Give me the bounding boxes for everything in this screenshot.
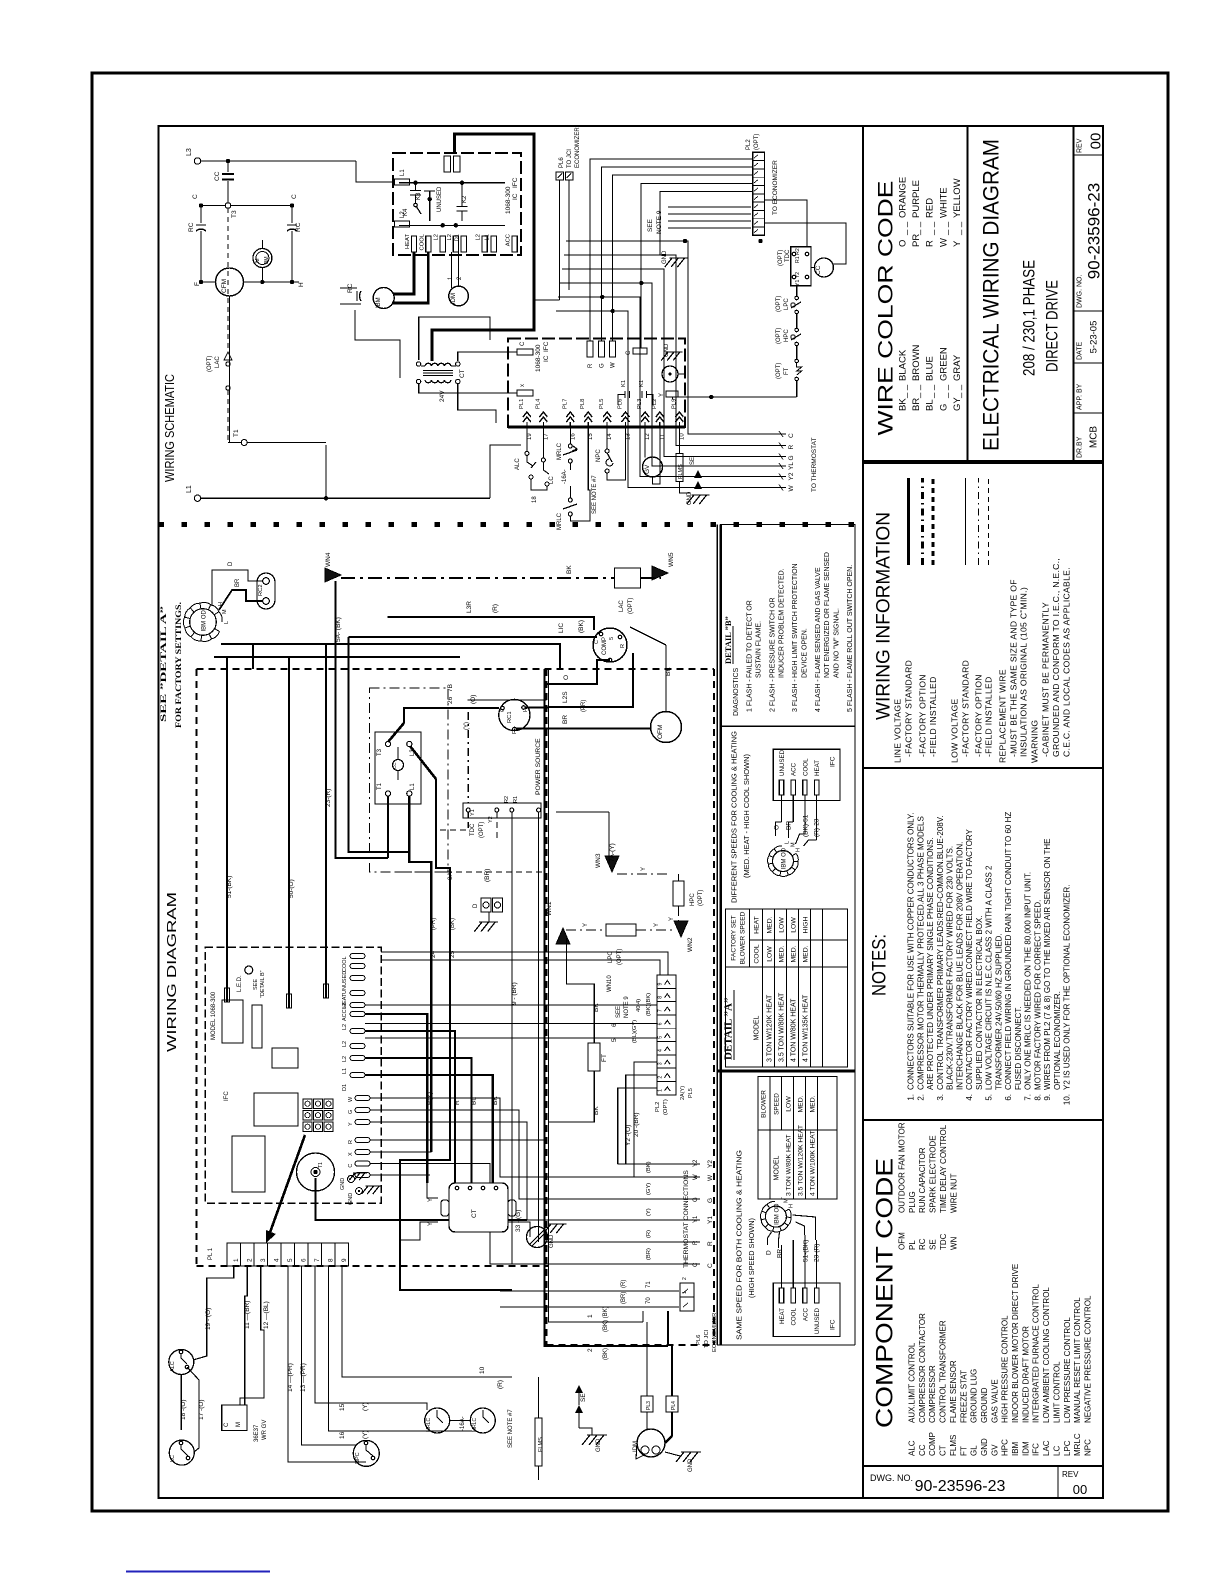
wire (229, 296, 231, 443)
svg-text:GRAY: GRAY (952, 354, 963, 381)
svg-text:CC: CC (214, 171, 221, 181)
svg-text:(OPT): (OPT) (776, 363, 782, 379)
svg-text:19 - (O): 19 - (O) (205, 1308, 212, 1330)
svg-text:10: 10 (679, 433, 685, 440)
wire rows 70 71 (500, 1290, 679, 1292)
svg-text:Y1: Y1 (707, 1216, 714, 1224)
ground (687, 495, 710, 504)
svg-text:3: 3 (658, 1062, 664, 1065)
svg-text:50-(O): 50-(O) (288, 879, 295, 898)
svg-text:40 4): 40 4) (636, 999, 642, 1012)
svg-text:(BK): (BK) (578, 620, 585, 633)
svg-text:Y2 IS USED ONLY FOR THE OPTION: Y2 IS USED ONLY FOR THE OPTIONAL ECONOMI… (1063, 884, 1072, 1090)
svg-text:TIME DELAY CONTROL: TIME DELAY CONTROL (939, 1124, 948, 1213)
svg-text:Y: Y (583, 923, 589, 927)
svg-text:H: H (789, 1204, 795, 1208)
svg-text:GL: GL (970, 1445, 979, 1456)
svg-text:Y: Y (654, 923, 660, 927)
svg-text:ALC: ALC (515, 458, 521, 470)
svg-text:SEE NOTE #7: SEE NOTE #7 (508, 1409, 514, 1448)
svg-text:W: W (707, 1174, 714, 1181)
svg-text:7.: 7. (1024, 1094, 1033, 1101)
svg-text:1068-300: 1068-300 (505, 186, 512, 214)
svg-text:8.: 8. (1033, 1094, 1042, 1101)
svg-text:K1: K1 (621, 380, 627, 387)
svg-text:PL5: PL5 (688, 1088, 694, 1098)
svg-text:(BL)(GY): (BL)(GY) (632, 1020, 638, 1043)
svg-text:1: 1 (587, 1314, 594, 1318)
thermostat connection G (370, 1110, 700, 1199)
svg-text:C: C (520, 341, 526, 346)
svg-text:R2: R2 (504, 796, 510, 803)
svg-text:L: L (785, 841, 791, 844)
svg-text:R: R (693, 1240, 699, 1245)
svg-text:COOL: COOL (342, 956, 348, 972)
svg-text:5: 5 (609, 637, 615, 640)
svg-text:INTERGRATED FURNACE CONTROL: INTERGRATED FURNACE CONTROL (1032, 1283, 1041, 1423)
svg-text:HPC: HPC (1001, 1439, 1010, 1456)
svg-text:7: 7 (314, 1258, 321, 1262)
wire dash-dot Y to HPC (617, 873, 671, 875)
svg-text:RC: RC (188, 222, 195, 232)
wire 18-(O) (180, 1375, 182, 1431)
svg-text:D: D (766, 1250, 773, 1255)
svg-text:90-23596-23: 90-23596-23 (915, 1478, 1006, 1495)
svg-text:WARNING: WARNING (1030, 720, 1040, 763)
svg-text:M: M (236, 1422, 242, 1427)
economizer plug PL5 strip (657, 975, 676, 1095)
gas valve control box 36E37 (222, 1405, 247, 1431)
svg-text:ONLY ONE MRLC IS NEEDED ON THE: ONLY ONE MRLC IS NEEDED ON THE 80,000 IN… (1024, 872, 1033, 1090)
high pressure control HPC (schematic) (795, 328, 799, 332)
svg-text:K4: K4 (403, 208, 409, 216)
wire 17-(O) (187, 1367, 199, 1438)
wire 9-(BR) (511, 812, 513, 1264)
svg-text:BK: BK (492, 1096, 499, 1105)
svg-text:4: 4 (274, 1258, 281, 1262)
indoor blower motor IBM (schematic) (373, 288, 394, 309)
wire vertical pair economizer column (549, 669, 644, 1322)
blower motor BM (253, 249, 272, 268)
led indicator (245, 966, 253, 974)
svg-text:2: 2 (658, 1076, 664, 1079)
svg-text:L1: L1 (485, 234, 491, 240)
svg-text:INDOOR BLOWER MOTOR DIRECT DRI: INDOOR BLOWER MOTOR DIRECT DRIVE (1011, 1264, 1020, 1423)
svg-text:REV: REV (1062, 1470, 1079, 1479)
svg-text:SEE: SEE (253, 979, 259, 990)
svg-text:(OPT): (OPT) (207, 356, 213, 372)
wire 14-(PR) (288, 1266, 366, 1462)
svg-text:_ _: _ _ (938, 221, 949, 236)
wire 24-(PR) (409, 796, 431, 1152)
svg-text:IC: IC (512, 193, 519, 200)
plug pin (566, 412, 574, 422)
svg-text:WN10: WN10 (607, 975, 613, 992)
svg-text:IC: IC (543, 355, 550, 362)
node T3 (225, 203, 231, 209)
svg-text:IDM: IDM (1021, 1441, 1030, 1456)
svg-text:HIGH: HIGH (803, 916, 810, 933)
svg-text:ACC: ACC (506, 234, 512, 246)
IFC control box bottom (1068-300) (508, 339, 685, 428)
svg-text:MODEL 1068-300: MODEL 1068-300 (211, 991, 217, 1040)
svg-text:G: G (938, 404, 949, 411)
economizer plug PL6 (schematic) (556, 172, 564, 180)
svg-text:1.: 1. (907, 1094, 916, 1101)
compressor COMP circle (593, 628, 627, 662)
svg-text:M: M (255, 258, 261, 263)
wire (559, 180, 561, 300)
svg-text:WIRE COLOR CODE: WIRE COLOR CODE (875, 181, 898, 436)
svg-text:INSULATION AS ORIGINAL (105 C˚: INSULATION AS ORIGINAL (105 C˚MIN.) (1019, 587, 1029, 757)
svg-text:(Y): (Y) (362, 1402, 369, 1411)
svg-text:MED.: MED. (810, 1095, 817, 1112)
svg-text:W: W (348, 1096, 354, 1102)
svg-text:PL2: PL2 (746, 139, 752, 150)
same speed table (758, 1077, 837, 1200)
time delay control TDC strip (463, 803, 541, 818)
svg-text:MED.: MED. (767, 916, 774, 933)
power source dash-dot box (370, 688, 449, 872)
wire 26 (404, 708, 499, 723)
pin Y (666, 391, 678, 397)
svg-text:9A: 9A (447, 871, 454, 880)
detail column border lines (716, 525, 718, 1346)
wire thick from box top (432, 134, 534, 361)
svg-text:FAILED TO DETECT OR: FAILED TO DETECT OR (747, 600, 754, 678)
svg-text:YELLOW: YELLOW (952, 178, 963, 218)
svg-text:FLAME SENSOR: FLAME SENSOR (949, 1360, 958, 1423)
pin C left (517, 349, 533, 355)
svg-text:9 - (BR): 9 - (BR) (511, 982, 518, 1005)
svg-text:5.: 5. (985, 1094, 994, 1101)
svg-text:K3: K3 (416, 192, 422, 200)
svg-text:DWG. NO.: DWG. NO. (870, 1473, 913, 1483)
manual reset limit MRLC upper (569, 427, 571, 444)
tap wires lower (768, 1232, 772, 1245)
wire stub C2 (370, 1174, 430, 1176)
high pressure control HPC (diagram) (673, 881, 684, 906)
svg-text:RC2: RC2 (258, 584, 264, 596)
svg-text:BLOWER SPEED: BLOWER SPEED (740, 911, 747, 964)
svg-text:4: 4 (658, 1049, 664, 1052)
svg-text:WN3: WN3 (595, 853, 602, 868)
time delay control TDC (schematic) (791, 247, 811, 286)
svg-text:-16A-: -16A- (562, 469, 568, 484)
svg-text:BR: BR (777, 1249, 784, 1258)
svg-text:L1: L1 (410, 783, 416, 790)
plug pin (641, 412, 649, 422)
svg-text:HEAT: HEAT (779, 1308, 786, 1324)
control transformer CT (schematic) (425, 363, 432, 366)
pin D1 (461, 236, 466, 252)
wire chain LPC HPC FT (796, 286, 798, 296)
low pressure control LPC (schematic) (795, 296, 799, 300)
svg-text:L: L (224, 621, 230, 624)
svg-text:NPC: NPC (1083, 1439, 1092, 1456)
wire L2S (549, 706, 583, 708)
svg-text:ACC: ACC (802, 1307, 809, 1321)
svg-text:3 TON W/80K HEAT: 3 TON W/80K HEAT (786, 1134, 793, 1196)
svg-text:15: 15 (588, 433, 594, 440)
svg-text:19: 19 (527, 433, 533, 440)
wire from PL5 strip to board (381, 960, 660, 975)
board pin D1 (350, 1073, 365, 1078)
cabinet dashed outline (197, 668, 715, 670)
svg-text:R: R (588, 363, 594, 368)
svg-text:ECONOMIZER: ECONOMIZER (712, 1313, 718, 1352)
svg-text:C.E.C. AND LOCAL CODES AS APPL: C.E.C. AND LOCAL CODES AS APPLICABLE. (1062, 567, 1072, 757)
svg-text:WIRING DIAGRAM: WIRING DIAGRAM (165, 892, 179, 1052)
svg-text:CONTROL TRANSFORMER PRIMARY LE: CONTROL TRANSFORMER PRIMARY LEADS:RED-CO… (936, 815, 945, 1090)
wire to thermostat R (564, 255, 786, 446)
svg-text:H: H (298, 282, 305, 287)
svg-text:WN: WN (949, 1236, 958, 1250)
svg-text:PL5: PL5 (599, 399, 605, 409)
low ambient cooling LAC (615, 568, 641, 588)
wire B(Y) (365, 1014, 427, 1183)
svg-text:MCB: MCB (1089, 426, 1100, 449)
wire 9A dashed (396, 871, 545, 873)
wire BK to freeze stat (567, 938, 595, 1043)
blue underline mark bottom left (126, 1571, 270, 1573)
svg-text:HIGH PRESSURE CONTROL: HIGH PRESSURE CONTROL (1001, 1315, 1010, 1423)
svg-text:PL4: PL4 (671, 1401, 677, 1410)
svg-text:36E37: 36E37 (254, 1424, 260, 1442)
svg-text:NOTES:: NOTES: (870, 934, 891, 996)
svg-text:PL6: PL6 (696, 1335, 702, 1345)
wire from motor to left runs (221, 644, 560, 669)
thermostat connection R (370, 1140, 700, 1242)
svg-text:3 TON W/120K HEAT: 3 TON W/120K HEAT (767, 994, 774, 1062)
svg-text:GROUNDED AND CONFORM TO I.E.C.: GROUNDED AND CONFORM TO I.E.C., N.E.C., (1051, 558, 1061, 757)
svg-text:_ _: _ _ (911, 221, 922, 236)
svg-text:W: W (938, 238, 949, 247)
svg-text:_ _: _ _ (952, 221, 963, 236)
low pressure control LPC (diagram) (606, 924, 636, 936)
svg-text:GAS VALVE: GAS VALVE (990, 1379, 999, 1423)
IFC pin UNUSED (814, 1288, 818, 1303)
svg-text:IBM: IBM (376, 297, 382, 308)
svg-text:LC: LC (1052, 1446, 1061, 1456)
svg-text:33 - (G): 33 - (G) (515, 1210, 522, 1232)
IFC pin ACC (803, 1288, 807, 1303)
pins R G W (587, 341, 593, 357)
title block: wire color code box (863, 126, 968, 461)
contact blade L3 (410, 746, 436, 779)
svg-text:SEE NOTE #7: SEE NOTE #7 (592, 475, 598, 514)
svg-text:CFM: CFM (221, 279, 228, 293)
svg-text:GND: GND (596, 1438, 602, 1452)
notes box (863, 768, 1103, 1120)
svg-text:MED.: MED. (798, 1095, 805, 1112)
motor speed tap wires (781, 795, 783, 822)
svg-text:L2: L2 (447, 234, 453, 240)
wire 20-(BR) (634, 1062, 657, 1177)
svg-text:SEE: SEE (616, 1006, 622, 1018)
divider between detail A and lower detail (717, 1070, 855, 1073)
board pin L1 (350, 1056, 365, 1061)
svg-text:Y: Y (952, 240, 963, 247)
svg-text:(OPT): (OPT) (663, 1099, 669, 1115)
svg-text:TO THERMOSTAT: TO THERMOSTAT (811, 438, 818, 492)
wire (458, 352, 517, 361)
svg-text:LOW VOLTAGE CIRCUIT IS N.E.C.C: LOW VOLTAGE CIRCUIT IS N.E.C.CLASS 2 WIT… (985, 865, 994, 1090)
svg-text:4 TON W/80K HEAT: 4 TON W/80K HEAT (791, 998, 798, 1062)
wire BK from OFM (665, 645, 667, 712)
wire to thermostat C (566, 241, 786, 434)
svg-text:T3: T3 (231, 210, 238, 218)
svg-text:5-23-05: 5-23-05 (1089, 321, 1100, 354)
svg-text:11 —(BR): 11 —(BR) (244, 1301, 251, 1329)
detail B IFC plug box (773, 749, 840, 800)
wire (796, 381, 798, 397)
svg-text:(O): (O) (470, 695, 477, 704)
arrow to PL1 (268, 1135, 305, 1238)
svg-text:C: C (788, 433, 795, 438)
svg-text:ELECTRICAL WIRING DIAGRAM: ELECTRICAL WIRING DIAGRAM (979, 139, 1004, 451)
svg-text:6.: 6. (1004, 1094, 1013, 1101)
svg-text:LOW AMBIENT COOLING CONTROL: LOW AMBIENT COOLING CONTROL (1042, 1287, 1051, 1423)
svg-text:IFC: IFC (830, 1319, 837, 1330)
board pin COOL (350, 954, 365, 959)
svg-text:WIRES FROM PL2 (7 & 8) GO TO T: WIRES FROM PL2 (7 & 8) GO TO THE MIXED A… (1043, 839, 1052, 1090)
svg-text:LINE VOLTAGE: LINE VOLTAGE (893, 699, 903, 763)
svg-text:_ _: _ _ (925, 384, 936, 399)
svg-text:PL3: PL3 (646, 1401, 652, 1410)
ground (661, 352, 682, 361)
ground (582, 1435, 607, 1445)
svg-text:ALC: ALC (170, 1361, 176, 1372)
svg-text:M: M (784, 1198, 790, 1203)
svg-text:(R): (R) (497, 1380, 504, 1389)
svg-text:G: G (348, 1110, 354, 1114)
svg-text:11: 11 (660, 433, 666, 440)
pin L1 of IFC box (395, 179, 410, 185)
svg-text:8: 8 (658, 996, 664, 999)
plug PL1 strip (227, 1243, 349, 1266)
svg-text:1: 1 (233, 1258, 240, 1262)
wire from T1 down (316, 1178, 528, 1220)
svg-text:ALC: ALC (908, 1440, 917, 1456)
svg-text:SPEED: SPEED (774, 1093, 781, 1115)
svg-text:INDUCER PROBLEM DETECTED.: INDUCER PROBLEM DETECTED. (779, 568, 786, 678)
svg-text:RED: RED (925, 198, 936, 218)
svg-text:5 FLASH -: 5 FLASH - (847, 679, 854, 712)
plug PL3 (641, 1396, 653, 1412)
svg-text:-FIELD INSTALLED: -FIELD INSTALLED (984, 676, 994, 757)
board pin L2 (350, 1012, 365, 1017)
svg-text:DIAGNOSTICS: DIAGNOSTICS (733, 667, 740, 716)
pin HEAT (411, 236, 416, 252)
svg-text:IDM: IDM (633, 1441, 639, 1452)
svg-text:R: R (788, 445, 795, 450)
wire Y2-(O) (626, 1075, 657, 1164)
svg-text:RC: RC (918, 1238, 927, 1250)
svg-text:NPC: NPC (355, 1452, 361, 1464)
dwg no strip bottom (863, 1466, 1103, 1498)
svg-text:8: 8 (328, 1258, 335, 1262)
run capacitor RC right (291, 206, 293, 224)
svg-text:IBM OD: IBM OD (782, 847, 788, 869)
svg-text:L2S: L2S (562, 691, 569, 703)
svg-text:G: G (693, 1197, 699, 1202)
svg-text:HEAT: HEAT (814, 760, 821, 776)
manual reset limit MRLC 1 (425, 1408, 450, 1433)
svg-text:WN2: WN2 (687, 937, 694, 952)
wire 16-(Y) (329, 1266, 473, 1431)
svg-text:FREEZE STAT: FREEZE STAT (959, 1370, 968, 1423)
svg-text:2 FLASH -: 2 FLASH - (769, 679, 776, 712)
svg-text:UNUSED: UNUSED (437, 186, 443, 212)
svg-text:12 —(BL): 12 —(BL) (263, 1301, 270, 1329)
svg-text:14 —(PR): 14 —(PR) (287, 1363, 294, 1392)
svg-text:6: 6 (301, 1258, 308, 1262)
pin L1 (491, 236, 496, 252)
IFC pin ACC (791, 780, 795, 795)
svg-text:UNUSED: UNUSED (342, 971, 348, 994)
svg-text:HIGH LIMIT SWITCH PROTECTION: HIGH LIMIT SWITCH PROTECTION (792, 563, 799, 678)
svg-text:17 -(O): 17 -(O) (198, 1399, 205, 1420)
svg-text:GND: GND (340, 1178, 346, 1190)
svg-text:MODEL: MODEL (754, 1015, 761, 1040)
unused pins (444, 156, 451, 172)
svg-text:OPTIONAL ECONOMIZER.: OPTIONAL ECONOMIZER. (1053, 991, 1062, 1090)
IFC pin HEAT (814, 780, 818, 795)
terminal L1 (194, 495, 200, 501)
freeze stat FT rect (588, 1043, 600, 1071)
svg-text:(BR): (BR) (646, 1248, 652, 1260)
svg-text:SE: SE (580, 1393, 587, 1402)
svg-text:2.: 2. (916, 1094, 925, 1101)
svg-text:PL2: PL2 (655, 1102, 661, 1112)
negative pressure control NPC (353, 1440, 379, 1466)
LAC optional contact dashed branch (227, 208, 229, 348)
svg-text:HEAT: HEAT (405, 234, 411, 249)
svg-text:C: C (693, 1262, 699, 1267)
svg-text:BLOWER: BLOWER (761, 1090, 768, 1118)
wire 5A-(BK) (336, 581, 389, 858)
svg-text:(OPT): (OPT) (776, 296, 782, 312)
IFC pin UNUSED (779, 780, 783, 795)
svg-text:BLUE: BLUE (925, 356, 936, 381)
svg-text:G: G (707, 1198, 714, 1203)
svg-text:T1: T1 (377, 782, 383, 790)
wire stub X to 24 (370, 1151, 431, 1153)
plug pin (539, 412, 547, 422)
svg-text:L1: L1 (342, 1068, 348, 1074)
svg-text:23-(R): 23-(R) (325, 789, 332, 807)
svg-text:MED.: MED. (779, 945, 786, 962)
svg-text:LC: LC (170, 1455, 176, 1462)
svg-text:(Y): (Y) (362, 1430, 369, 1439)
thermostat connection Y2 (618, 1163, 700, 1165)
wire from T1 disconnect (387, 796, 389, 858)
svg-text:COOL: COOL (754, 944, 761, 963)
svg-text:CC: CC (815, 265, 822, 275)
svg-text:GV: GV (990, 1444, 999, 1456)
wire BK below freeze stat (549, 1071, 595, 1122)
indoor blower motor symbol detail B (773, 851, 794, 872)
wire R1 down (538, 812, 540, 1242)
svg-text:COOL: COOL (802, 758, 809, 776)
svg-text:COMP: COMP (602, 637, 608, 655)
svg-text:(BK)(BK): (BK)(BK) (646, 993, 652, 1016)
plug pin (603, 412, 611, 422)
board pin W (355, 1096, 370, 1101)
svg-text:DETAIL ”B”: DETAIL ”B” (723, 616, 733, 664)
svg-text:(BK) (BK): (BK) (BK) (603, 1306, 609, 1332)
